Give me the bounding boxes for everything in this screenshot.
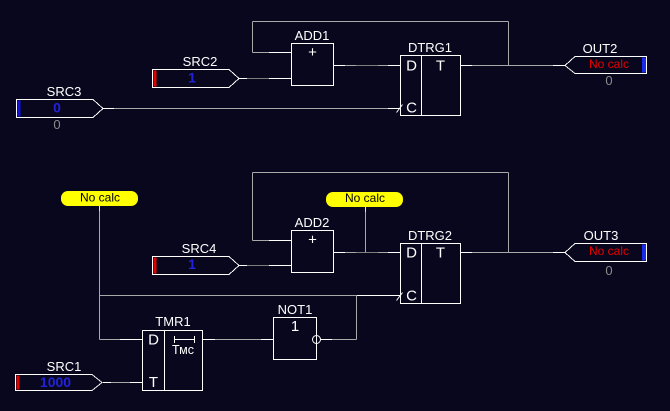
input block SRC2 [153, 54, 240, 88]
wire oscillator net to TMR1.D [100, 339, 143, 341]
probe label No calc (DTRG2.D net) [326, 191, 403, 212]
wire net4 DTRG1.T to OUT2 and feedback [460, 65, 565, 67]
svg-text:ADD1: ADD1 [295, 28, 330, 43]
wire net2 SRC2 to ADD1.in2 [239, 78, 291, 80]
svg-text:OUT2: OUT2 [583, 41, 618, 56]
svg-text:T: T [436, 58, 445, 75]
svg-text:SRC1: SRC1 [47, 359, 82, 374]
input block SRC1 [16, 359, 103, 391]
input block SRC3 [17, 84, 104, 132]
svg-text:T: T [149, 374, 158, 391]
inverter NOT1 [274, 302, 317, 360]
wire feedback2 to ADD2.in1 [253, 240, 292, 242]
wire net7 DTRG2.T to OUT3 and feedback [460, 252, 565, 254]
svg-text:0: 0 [53, 100, 61, 116]
svg-text:SRC4: SRC4 [182, 241, 217, 256]
svg-text:NOT1: NOT1 [278, 302, 313, 317]
svg-text:1000: 1000 [40, 374, 71, 390]
svg-text:+: + [308, 232, 317, 249]
wire NOT1.out horizontal [321, 339, 357, 341]
output block OUT2 [565, 41, 647, 88]
wire feedback2 vertical left [252, 173, 254, 241]
svg-text:+: + [308, 44, 317, 61]
svg-text:Тмс: Тмс [172, 343, 194, 357]
svg-text:No calc: No calc [589, 244, 629, 258]
dynamic edge mark DTRG1.C [397, 105, 403, 113]
svg-text:No calc: No calc [345, 191, 385, 205]
wire net5 SRC4 to ADD2.in2 [239, 265, 291, 267]
probe label No calc (oscillator net) [61, 191, 138, 212]
adder ADD1 [292, 28, 334, 86]
wire feedback1 to ADD1.in1 [253, 52, 292, 54]
wire probe2 stem vertical [365, 206, 367, 253]
svg-text:0: 0 [605, 73, 612, 88]
svg-text:1: 1 [188, 256, 196, 272]
svg-text:0: 0 [605, 263, 612, 278]
wire feedback2 vertical right [508, 173, 510, 253]
svg-text:D: D [406, 245, 417, 262]
timer TMR1 [143, 314, 203, 391]
adder ADD2 [292, 215, 334, 273]
wire net3 ADD1.out to DTRG1.D [333, 65, 400, 67]
output block OUT3 [565, 228, 647, 278]
D-trigger DTRG1 [401, 40, 461, 117]
svg-text:0: 0 [53, 117, 60, 132]
inverter bubble NOT1.out [313, 336, 321, 344]
svg-text:1: 1 [188, 70, 196, 86]
svg-text:D: D [148, 332, 159, 349]
svg-text:D: D [406, 58, 417, 75]
svg-text:TMR1: TMR1 [155, 314, 190, 329]
input block SRC4 [153, 241, 240, 275]
svg-text:OUT3: OUT3 [584, 228, 619, 243]
wire feedback1 vertical right [508, 22, 510, 66]
dynamic edge mark DTRG2.C [397, 293, 403, 301]
wire SRC1 to TMR1.T [103, 382, 142, 384]
svg-text:C: C [406, 100, 417, 117]
wire net6 ADD2.out to DTRG2.D [333, 252, 400, 254]
wire feedback1 top horizontal [253, 21, 509, 23]
wire feedback2 top horizontal [253, 172, 509, 174]
svg-text:SRC3: SRC3 [47, 84, 82, 99]
svg-text:DTRG2: DTRG2 [408, 228, 452, 243]
svg-text:SRC2: SRC2 [183, 54, 218, 69]
svg-text:T: T [436, 245, 445, 262]
svg-text:No calc: No calc [589, 57, 629, 71]
wire TMR1.out to NOT1.in [203, 339, 273, 341]
svg-text:C: C [406, 288, 417, 305]
wire NOT1.out vertical riser [356, 296, 358, 340]
wire net1 SRC3 to DTRG1.C [103, 108, 400, 110]
svg-text:No calc: No calc [80, 191, 120, 205]
wire probe1 stem vertical [99, 206, 101, 340]
svg-text:1: 1 [291, 318, 299, 335]
D-trigger DTRG2 [401, 228, 461, 305]
svg-text:ADD2: ADD2 [295, 215, 330, 230]
timer symbol TMR1 [172, 336, 195, 357]
wire feedback1 vertical left [252, 22, 254, 53]
wire oscillator net horizontal to DTRG2.C [100, 295, 401, 297]
svg-text:DTRG1: DTRG1 [408, 40, 452, 55]
